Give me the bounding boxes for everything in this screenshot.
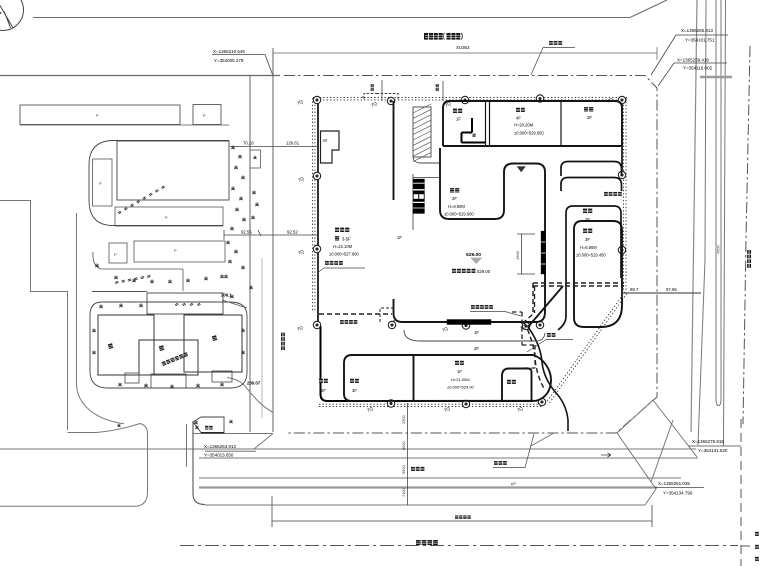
entrance triangle marker bbox=[517, 167, 526, 173]
lower building divider bbox=[413, 355, 415, 401]
road edge: west horizontal y75 bbox=[0, 75, 280, 77]
parking row2 curbs bbox=[93, 252, 183, 291]
label sight line bbox=[531, 41, 575, 75]
label slow lane bbox=[411, 467, 424, 471]
survey monument circle 3 bbox=[461, 96, 468, 103]
survey label 7Q #2 bbox=[370, 100, 378, 107]
survey label 7Q #6 bbox=[297, 248, 305, 255]
parking stall marks row A bbox=[118, 186, 165, 214]
svg-text:1F: 1F bbox=[456, 117, 461, 122]
kitchen room outline bbox=[502, 369, 532, 402]
svg-text:XU363: XU363 bbox=[456, 45, 470, 50]
svg-text:H=9.90M: H=9.90M bbox=[448, 204, 465, 209]
site podium bold southwest corner bbox=[321, 326, 534, 401]
junction diagonal edges bbox=[531, 400, 697, 505]
label lawn brick bbox=[493, 434, 534, 468]
dimension 1900 vertical bbox=[515, 234, 535, 274]
label fire pad bbox=[340, 320, 357, 324]
svg-text:Y=354131.520: Y=354131.520 bbox=[698, 448, 728, 453]
svg-text:X=1365210.646: X=1365210.646 bbox=[213, 49, 245, 54]
coord label SE1 bbox=[688, 439, 741, 453]
parking big building bbox=[117, 141, 229, 200]
survey monument circle 7 bbox=[313, 245, 320, 252]
label west residences bbox=[329, 228, 359, 257]
svg-text:120.61: 120.61 bbox=[286, 141, 300, 146]
label south wing floors bbox=[474, 330, 479, 351]
southwest sidewalk corner curve bbox=[227, 378, 273, 413]
survey monument circle 2 bbox=[387, 97, 394, 104]
residence labels bbox=[108, 335, 218, 351]
svg-text:Y=354101.751: Y=354101.751 bbox=[685, 38, 715, 43]
site boundary dotted north bbox=[313, 98, 627, 100]
label dorm 2F bbox=[583, 209, 592, 222]
survey label 7Q #7 bbox=[296, 324, 304, 331]
hatched substation rect bbox=[413, 104, 439, 163]
retaining wall diagonal bbox=[528, 286, 563, 327]
fire lane dashed bump bbox=[380, 308, 394, 322]
svg-text:X=1365259.416: X=1365259.416 bbox=[677, 58, 709, 63]
site boundary dotted south bbox=[319, 404, 542, 406]
label slope pct bbox=[510, 481, 517, 487]
svg-text:3F: 3F bbox=[585, 237, 590, 242]
survey monument circle 6 bbox=[313, 172, 320, 179]
dim line SE corner bbox=[622, 287, 701, 298]
svg-text:2F: 2F bbox=[474, 346, 479, 351]
survey label 7Q #4 bbox=[606, 96, 614, 103]
svg-text:H=21.00M: H=21.00M bbox=[451, 377, 470, 382]
south road edge line y458 bbox=[199, 457, 698, 459]
south road median thick line bbox=[199, 486, 657, 488]
lower building outline bbox=[344, 355, 551, 401]
residence top annex rect bbox=[147, 293, 223, 314]
parking stall marks row C bbox=[175, 303, 201, 306]
svg-text:±0.000=529.450: ±0.000=529.450 bbox=[576, 253, 606, 258]
svg-text:H=6.90M: H=6.90M bbox=[580, 245, 597, 250]
label lower strip bbox=[319, 379, 328, 393]
covered corridor black bar bbox=[541, 231, 546, 274]
label plaza 1F bbox=[397, 235, 402, 240]
label east road name bbox=[747, 250, 751, 268]
svg-text:±0.000=529.650: ±0.000=529.650 bbox=[514, 131, 544, 136]
svg-text:1F: 1F bbox=[457, 369, 462, 374]
svg-text:97.56: 97.56 bbox=[666, 287, 677, 292]
survey monument circle 17 bbox=[462, 322, 469, 329]
survey label 7Q #5 bbox=[297, 175, 305, 182]
svg-text:H=20.20M: H=20.20M bbox=[514, 123, 534, 128]
dim text 230 bbox=[247, 381, 261, 386]
label bld3 dorm bbox=[584, 107, 593, 120]
elevation note bbox=[452, 269, 491, 274]
road centerline: far east dash-dot bbox=[743, 46, 750, 424]
gate post 1 bbox=[381, 80, 383, 101]
label stone retaining wall bbox=[604, 192, 622, 196]
dorm outer enclosure bbox=[558, 206, 621, 330]
survey monument circle 5 bbox=[618, 96, 625, 103]
building row1 dividers bbox=[486, 101, 562, 146]
svg-text:Y=354116.002: Y=354116.002 bbox=[683, 66, 713, 71]
survey label 7Q #8 bbox=[366, 405, 374, 412]
stair core walls bbox=[462, 118, 486, 143]
survey label 7Q #12 bbox=[441, 325, 449, 332]
small planter rect bbox=[250, 150, 261, 168]
south road centerline dash-dot bbox=[180, 545, 738, 547]
svg-text:6000: 6000 bbox=[401, 441, 406, 450]
fire lane dashed inner rect bbox=[512, 312, 535, 368]
parking stall marks row B bbox=[115, 275, 150, 283]
south road lane line y478 bbox=[199, 477, 681, 479]
svg-text:529.00: 529.00 bbox=[466, 252, 481, 258]
coord label NW bbox=[212, 49, 273, 75]
site access road lane line bbox=[261, 258, 263, 418]
svg-text:X=1365263.913: X=1365263.913 bbox=[204, 444, 236, 449]
label dorm 3F bbox=[576, 229, 606, 258]
residence block C bbox=[184, 315, 242, 372]
south road edge line y505 bbox=[205, 504, 645, 506]
canteen wing + south wing bold outline bbox=[394, 148, 546, 322]
parking outer curb bbox=[89, 141, 229, 226]
svg-text:H=22.10M: H=22.10M bbox=[333, 244, 353, 249]
svg-text:70.16: 70.16 bbox=[243, 141, 254, 146]
east road lane line 2 bbox=[698, 0, 706, 445]
svg-text:2F: 2F bbox=[321, 388, 326, 393]
survey monument circle 10 bbox=[618, 246, 625, 253]
svg-text:X=1365276.816: X=1365276.816 bbox=[692, 439, 724, 444]
svg-text:92.56: 92.56 bbox=[241, 230, 252, 235]
svg-text:Y=354134.796: Y=354134.796 bbox=[663, 491, 693, 496]
label bld2 office bbox=[514, 108, 544, 136]
parking top baseline bbox=[20, 124, 229, 126]
svg-text:Y=354013.650: Y=354013.650 bbox=[204, 453, 234, 458]
residence outer sidewalk bbox=[90, 302, 247, 388]
fire lane dashed along curve bbox=[524, 322, 545, 390]
label canteen bbox=[444, 188, 474, 216]
fire lane dashed west bbox=[319, 313, 392, 315]
dim text 206 bbox=[221, 293, 232, 298]
parking lower rect bbox=[115, 207, 223, 226]
label mgmt office rotated bbox=[161, 352, 188, 366]
residence leader diagonal bbox=[222, 300, 247, 308]
gate label 1 bbox=[371, 84, 374, 91]
dim chain south vertical bbox=[401, 403, 408, 505]
site access road east edge bbox=[272, 48, 274, 432]
svg-text:X=1365261.035: X=1365261.035 bbox=[658, 481, 690, 486]
utility enclosure outer bbox=[187, 422, 206, 505]
survey monument circle 13 bbox=[538, 398, 545, 405]
svg-text:2F: 2F bbox=[585, 217, 590, 222]
survey monument circle 12 bbox=[462, 400, 469, 407]
west road edge upper bbox=[0, 201, 68, 431]
dim text east road bbox=[716, 245, 721, 254]
svg-text:1900: 1900 bbox=[515, 250, 520, 260]
terrace retaining wall 1 bbox=[561, 162, 622, 177]
label fire access line bbox=[470, 305, 521, 316]
label slope line bbox=[317, 261, 365, 273]
dim line mid access bbox=[224, 230, 318, 241]
junction arrow marking bbox=[601, 453, 611, 457]
survey label 7Q #11 bbox=[519, 323, 527, 330]
svg-text:3-5F: 3-5F bbox=[342, 237, 351, 242]
residence block A bbox=[98, 315, 154, 375]
west covered walkway wall bbox=[393, 101, 395, 200]
survey monument circle 15 bbox=[536, 321, 543, 328]
survey monument circle 16 bbox=[388, 321, 395, 328]
svg-text:5500: 5500 bbox=[401, 465, 406, 474]
coord label SE2 bbox=[655, 481, 704, 496]
terrace retaining wall 2 bbox=[561, 178, 622, 192]
coord label NE2 bbox=[658, 58, 727, 87]
south road edge line y433 bbox=[193, 434, 273, 450]
label sidewalk bbox=[455, 515, 471, 519]
label road name top bbox=[424, 33, 462, 40]
svg-text:3F: 3F bbox=[352, 388, 357, 393]
parking row2 small bbox=[109, 243, 127, 263]
svg-text:Y=354005.279: Y=354005.279 bbox=[214, 58, 244, 63]
residence block B bbox=[139, 340, 198, 375]
south road edge line y449 bbox=[0, 448, 696, 450]
svg-text:1F: 1F bbox=[397, 235, 402, 240]
fire lane dashed east top bbox=[533, 283, 624, 286]
svg-text:1F: 1F bbox=[474, 330, 479, 335]
coord label NE1 bbox=[651, 28, 728, 75]
road edge: top boundary line bbox=[33, 0, 667, 18]
road centerline: north+east dash-dot bbox=[284, 76, 657, 434]
svg-text:2500: 2500 bbox=[401, 415, 406, 424]
south road dimension line y521 bbox=[272, 496, 652, 527]
right edge text fragments bbox=[755, 532, 759, 561]
gate post 2 bbox=[442, 81, 444, 101]
site access road west edge bbox=[249, 76, 251, 433]
southeast boundary dashed vertical bbox=[741, 419, 756, 566]
svg-text:92.52: 92.52 bbox=[287, 230, 298, 235]
label road sta bbox=[456, 45, 470, 50]
svg-text:±0.000=529.00: ±0.000=529.00 bbox=[447, 385, 475, 390]
east driveway S-curve edge bbox=[528, 327, 568, 431]
svg-text:4500: 4500 bbox=[716, 245, 721, 254]
tree symbols bbox=[92, 145, 259, 424]
survey monument circle 8 bbox=[313, 321, 320, 328]
building row1 outline (north offices) bbox=[443, 101, 622, 146]
survey monument circle 4 bbox=[536, 95, 543, 102]
svg-text:3F: 3F bbox=[587, 115, 592, 120]
survey label 7Q #3 bbox=[444, 100, 452, 107]
west road inner edge with curve bbox=[77, 213, 125, 424]
survey label 7Q #1 bbox=[296, 98, 304, 105]
survey monument circle 14 bbox=[522, 322, 529, 329]
svg-text:230.07: 230.07 bbox=[247, 381, 261, 386]
svg-text:4F: 4F bbox=[516, 116, 521, 121]
dim line north access bbox=[230, 141, 318, 147]
parking row2 wide bbox=[134, 241, 225, 262]
east road lane line 3 bbox=[724, 0, 726, 446]
label fire truck lane rot bbox=[281, 333, 285, 350]
south canopy black bar bbox=[447, 320, 491, 325]
label lower left room bbox=[350, 379, 359, 393]
coord label SW bbox=[204, 444, 256, 458]
elevation marker triangle bbox=[466, 252, 482, 264]
svg-text:2F: 2F bbox=[452, 196, 457, 201]
svg-text:89.7: 89.7 bbox=[630, 287, 639, 292]
site boundary dotted west bbox=[313, 98, 315, 311]
gate label 2 bbox=[436, 84, 439, 91]
dorm building bold outline bbox=[574, 221, 622, 327]
east road median U island bbox=[716, 0, 721, 406]
residence bumps bbox=[125, 371, 232, 388]
west road curb with rounded corners bbox=[0, 424, 148, 507]
label kitchen bbox=[507, 380, 516, 384]
parking top rect 2 bbox=[193, 105, 221, 125]
svg-text:±0.000=527.600: ±0.000=527.600 bbox=[329, 252, 359, 257]
residence west line bbox=[92, 291, 147, 293]
parking top rect 1 bbox=[20, 105, 180, 125]
survey monument circle 11 bbox=[387, 400, 394, 407]
site wall bold west bbox=[317, 100, 319, 326]
label lower center bbox=[447, 361, 475, 390]
svg-text:±0.000=529.600: ±0.000=529.600 bbox=[444, 212, 474, 217]
utility inner line bbox=[199, 474, 760, 484]
svg-text:529.00: 529.00 bbox=[477, 269, 491, 274]
survey monument circle 1 bbox=[313, 96, 320, 103]
road edge: north secondary line bbox=[273, 47, 657, 60]
svg-text:4#: 4# bbox=[323, 138, 328, 143]
east road lane line 1 bbox=[691, 0, 697, 432]
parking left stall rect bbox=[93, 159, 113, 206]
label fence bbox=[527, 333, 573, 352]
east road crosswalk bar bbox=[700, 76, 732, 78]
fire lane dashed east vertical bbox=[524, 283, 535, 322]
site boundary dotted east bbox=[623, 98, 626, 292]
svg-text:X=1365265.813: X=1365265.813 bbox=[681, 28, 713, 33]
label bld1 transformer bbox=[453, 109, 462, 122]
site wall bold east bbox=[621, 100, 623, 176]
label road name bottom bbox=[416, 540, 438, 545]
svg-text:7100: 7100 bbox=[401, 488, 406, 497]
gate dashed bump bbox=[362, 94, 398, 100]
north arrow symbol bbox=[0, 0, 24, 31]
survey label 7Q #10 bbox=[516, 405, 524, 412]
south canopy line bbox=[404, 330, 545, 341]
utility boxes bbox=[193, 417, 233, 433]
transformer building NW bbox=[321, 131, 340, 163]
survey label 7Q #9 bbox=[443, 405, 451, 412]
exterior stair bars bbox=[413, 174, 440, 230]
site boundary dotted southeast diagonal bbox=[546, 292, 627, 405]
survey monument circle 9 bbox=[618, 171, 625, 178]
